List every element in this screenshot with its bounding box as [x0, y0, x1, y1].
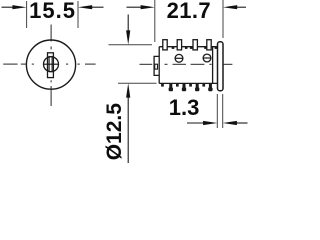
extension line right — [222, 94, 224, 128]
body bottom edge — [159, 82, 217, 84]
end plate — [218, 42, 224, 91]
extension line left — [154, 0, 156, 42]
body top edge — [159, 46, 217, 48]
key bar across core — [44, 63, 59, 65]
body left edge — [158, 47, 160, 84]
arrow left — [2, 5, 27, 9]
arrow left — [127, 5, 155, 9]
extension line left — [26, 1, 28, 28]
svg-text:Ø12.5: Ø12.5 — [103, 103, 126, 161]
bottom extension line — [118, 82, 157, 84]
vertical centerline — [50, 25, 52, 107]
svg-text:1.3: 1.3 — [169, 95, 200, 120]
keyway inner rect — [49, 57, 52, 72]
side view centerline — [140, 63, 233, 65]
flange key notch — [155, 64, 158, 69]
bottom pins with tips — [161, 83, 212, 91]
cylinder face circle — [26, 40, 75, 89]
extension line right — [222, 0, 224, 38]
svg-text:15.5: 15.5 — [29, 0, 76, 23]
top arrow (down) — [126, 15, 130, 45]
extension line right — [77, 1, 79, 28]
tumbler hole 1 — [175, 54, 183, 62]
core circle — [44, 57, 59, 72]
left flange — [154, 56, 159, 75]
arrow right — [78, 5, 104, 9]
arrow right — [223, 5, 246, 9]
keyway outer rect — [48, 53, 54, 78]
extension line left — [216, 94, 218, 128]
top pin chambers — [163, 40, 167, 50]
arrow right (pointing left) — [223, 121, 248, 125]
bottom arrow (up) — [126, 83, 130, 163]
svg-text:21.7: 21.7 — [167, 0, 211, 23]
arrow left (pointing right) — [187, 121, 217, 125]
top extension line — [109, 44, 153, 46]
bottom stubs — [161, 83, 164, 86]
horizontal centerline — [3, 63, 95, 65]
top notches — [172, 47, 175, 49]
tumbler hole 2 — [203, 54, 211, 62]
body right edge before plate — [212, 47, 214, 84]
